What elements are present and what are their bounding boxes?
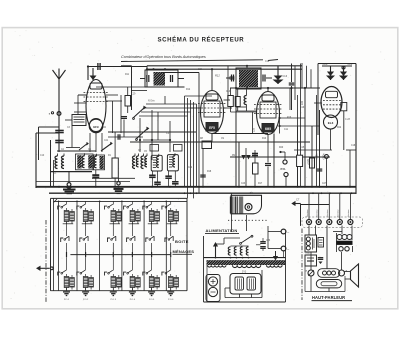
- svg-text:C13: C13: [283, 75, 288, 78]
- svg-text:R12: R12: [186, 89, 191, 91]
- svg-text:Secteur: Secteur: [326, 209, 329, 217]
- svg-text:MÉNAGES: MÉNAGES: [173, 249, 195, 254]
- svg-text:C12: C12: [265, 61, 270, 63]
- svg-text:Secteur: Secteur: [347, 209, 350, 217]
- svg-text:SCHÉMA DU RÉCEPTEUR: SCHÉMA DU RÉCEPTEUR: [158, 36, 245, 44]
- svg-text:C7: C7: [296, 198, 300, 202]
- svg-text:Secteur: Secteur: [316, 209, 319, 217]
- svg-text:P.O.3: P.O.3: [111, 299, 117, 301]
- svg-text:C18: C18: [351, 145, 356, 147]
- svg-text:R17: R17: [258, 183, 263, 185]
- svg-text:C10: C10: [226, 91, 231, 93]
- svg-text:R12: R12: [215, 74, 220, 78]
- svg-text:P.O.1: P.O.1: [64, 299, 70, 301]
- svg-text:+250v: +250v: [316, 153, 319, 160]
- svg-text:P.O.5: P.O.5: [149, 299, 155, 301]
- svg-text:225: 225: [253, 127, 256, 132]
- svg-text:ALIMENTATION: ALIMENTATION: [206, 228, 238, 233]
- svg-text:BOITE: BOITE: [175, 239, 189, 244]
- svg-text:R.Géo: R.Géo: [148, 101, 155, 103]
- svg-text:C19: C19: [131, 93, 136, 96]
- svg-text:EF9: EF9: [93, 125, 99, 129]
- svg-text:C21: C21: [104, 140, 109, 142]
- svg-text:5Y3: 5Y3: [242, 271, 247, 274]
- svg-text:R18: R18: [207, 171, 212, 173]
- svg-text:R22: R22: [337, 127, 342, 129]
- svg-text:R10: R10: [262, 138, 267, 140]
- svg-text:R20: R20: [279, 147, 284, 149]
- svg-text:P.O.2: P.O.2: [83, 299, 89, 301]
- svg-text:Secteur: Secteur: [306, 209, 309, 217]
- svg-text:C10: C10: [40, 155, 45, 157]
- svg-text:C22: C22: [188, 167, 193, 169]
- svg-text:HAUT-PARLEUR: HAUT-PARLEUR: [312, 295, 345, 300]
- svg-text:P.U.: P.U.: [281, 167, 287, 171]
- svg-text:Secteur: Secteur: [337, 209, 340, 217]
- svg-text:EL3: EL3: [328, 121, 334, 125]
- svg-text:P.O.6: P.O.6: [168, 299, 174, 301]
- svg-text:P.O.4: P.O.4: [130, 299, 136, 301]
- svg-text:C6: C6: [250, 191, 254, 195]
- svg-text:C15: C15: [300, 147, 305, 149]
- svg-text:220: 220: [301, 100, 304, 105]
- svg-text:Combinateur d’Opération tous B: Combinateur d’Opération tous Bords Autom…: [121, 55, 206, 59]
- svg-text:EF5: EF5: [209, 126, 215, 130]
- svg-text:C27: C27: [322, 183, 327, 185]
- svg-text:6M5: 6M5: [265, 127, 271, 131]
- svg-text:C23: C23: [241, 183, 246, 185]
- svg-text:C16: C16: [300, 107, 305, 109]
- svg-text:R16: R16: [287, 117, 292, 119]
- svg-text:C.28: C.28: [345, 119, 351, 121]
- svg-text:C26: C26: [266, 240, 271, 242]
